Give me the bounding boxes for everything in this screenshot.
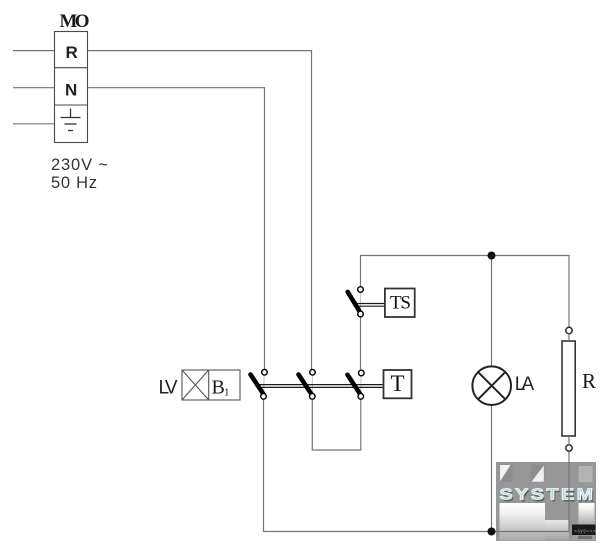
svg-text:B: B bbox=[212, 377, 225, 399]
svg-text:SYSTEM: SYSTEM bbox=[500, 486, 596, 503]
svg-text:R: R bbox=[66, 43, 78, 62]
svg-text:LV: LV bbox=[159, 378, 178, 399]
svg-text:MO: MO bbox=[60, 11, 90, 32]
svg-text:R: R bbox=[582, 369, 596, 393]
svg-text:T: T bbox=[391, 371, 405, 396]
svg-text:50 Hz: 50 Hz bbox=[51, 174, 97, 192]
svg-text:LA: LA bbox=[515, 374, 535, 395]
svg-text:1: 1 bbox=[224, 387, 230, 399]
svg-text:TS: TS bbox=[390, 293, 411, 314]
svg-text:N: N bbox=[65, 81, 77, 100]
svg-text:230V ~: 230V ~ bbox=[51, 156, 108, 174]
svg-text:⌁sys⌁⌁⌁: ⌁sys⌁⌁⌁ bbox=[574, 529, 596, 535]
